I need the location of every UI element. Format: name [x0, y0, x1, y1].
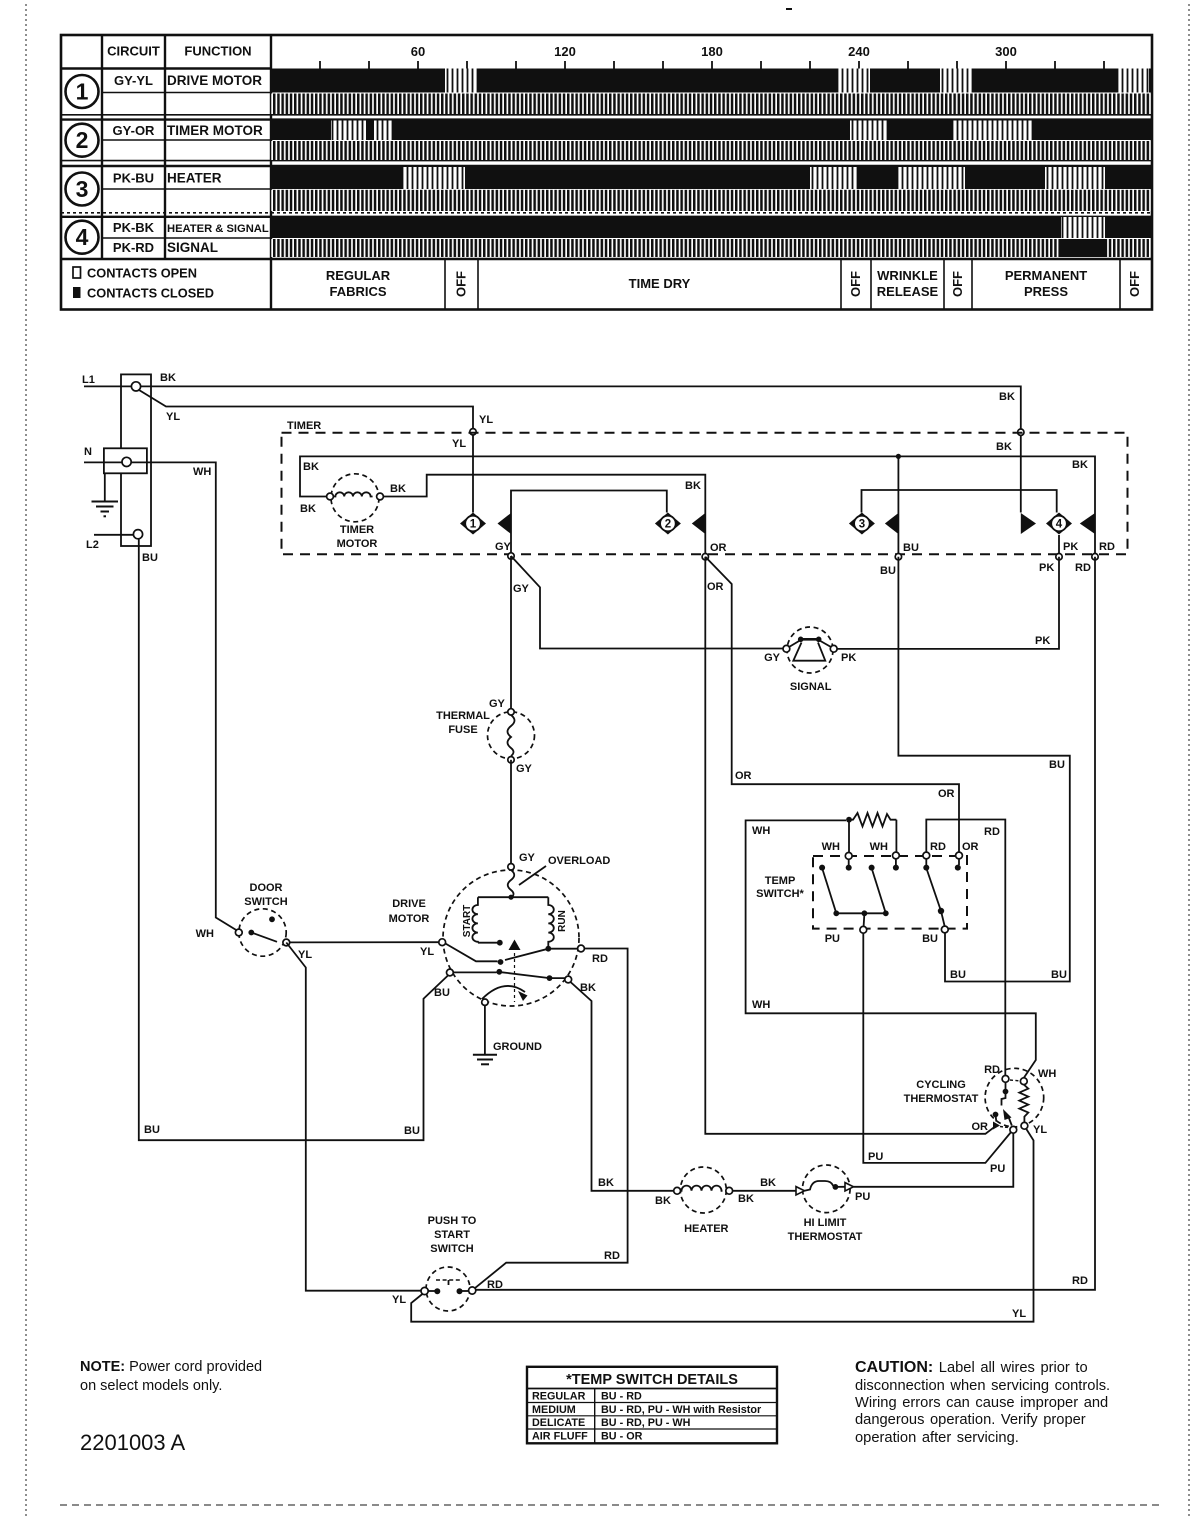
svg-text:BU: BU [1049, 759, 1065, 771]
centrifugal switch upper arm [445, 944, 578, 965]
svg-text:2: 2 [76, 127, 89, 153]
svg-text:PK-RD: PK-RD [113, 240, 154, 255]
circuit 2 stripe bar [271, 141, 1152, 160]
label BK near contact4 [1072, 459, 1088, 471]
svg-text:120: 120 [554, 44, 576, 59]
svg-text:RD: RD [487, 1279, 503, 1291]
svg-text:GY: GY [489, 698, 506, 710]
svg-text:CYCLING: CYCLING [916, 1079, 966, 1091]
label BK at contact 2 [685, 480, 701, 492]
label BK timer motor left [300, 503, 316, 515]
svg-text:FABRICS: FABRICS [329, 284, 386, 299]
label BU below [880, 565, 896, 577]
timer contact 4 [1021, 513, 1095, 535]
svg-text:FUNCTION: FUNCTION [184, 44, 251, 59]
svg-text:RD: RD [984, 1064, 1000, 1076]
label PU at temp switch [825, 933, 840, 945]
svg-text:GY-YL: GY-YL [114, 73, 153, 88]
label OR at cycling thermostat [972, 1121, 989, 1133]
wire RD motor down [472, 949, 627, 1291]
label BK timer motor right [390, 483, 406, 495]
row label TIMER MOTOR [167, 123, 263, 138]
svg-text:OR: OR [707, 581, 724, 593]
svg-text:CONTACTS CLOSED: CONTACTS CLOSED [87, 286, 214, 301]
label WH at door switch [196, 928, 214, 940]
wire BU from L2 to drive motor [139, 539, 449, 1140]
label PK at signal [841, 652, 856, 664]
chart outer frame [61, 35, 1152, 310]
terminal L1 [131, 382, 140, 391]
label GY above [495, 541, 512, 553]
label BK top right [999, 391, 1015, 403]
timer contact 2 [655, 513, 705, 535]
band label OFF 1 [454, 271, 469, 297]
label OR on diagonal [707, 581, 724, 593]
wire BK from L1 to timer contact 4 [141, 386, 1021, 512]
svg-text:WH: WH [752, 999, 770, 1011]
page border dotted left [25, 4, 27, 1516]
wire WH from N to door switch [131, 462, 237, 930]
svg-text:on select models only.: on select models only. [80, 1378, 222, 1394]
label BU lower right [1051, 969, 1067, 981]
label WH box bottom [752, 999, 770, 1011]
jumper contact 3 to contact 4 [862, 490, 1057, 513]
stray mark top center [786, 8, 792, 10]
svg-text:YL: YL [1012, 1308, 1026, 1320]
L2 lead wire [94, 534, 134, 536]
hi-limit thermostat [796, 1165, 854, 1213]
node PK [1056, 554, 1062, 560]
svg-text:PU: PU [855, 1191, 870, 1203]
circled number 4 [66, 221, 99, 254]
svg-text:BK: BK [760, 1177, 776, 1189]
label YL at door switch [298, 949, 312, 961]
label BU at motor [434, 987, 450, 999]
svg-text:2201003 A: 2201003 A [80, 1430, 186, 1455]
svg-text:GY-OR: GY-OR [113, 123, 156, 138]
label YL at push-to-start [392, 1294, 406, 1306]
chart separator lines row1/2 [61, 115, 1152, 120]
label BK below heater left [655, 1195, 671, 1207]
svg-text:BU - RD: BU - RD [601, 1391, 642, 1403]
push to start switch [421, 1267, 476, 1311]
circled number 1 [66, 75, 99, 108]
wh distribution box [746, 820, 1036, 1078]
wire YL branch down to push-to-start [286, 943, 420, 1291]
drive motor GY node [508, 864, 514, 870]
band label OFF 2 [848, 271, 863, 297]
ground symbol (mains) [92, 502, 119, 517]
svg-text:YL: YL [1033, 1124, 1047, 1136]
row label GY-OR [113, 123, 156, 138]
chart separator lines row2/3 [61, 161, 1152, 166]
svg-text:BU: BU [1051, 969, 1067, 981]
svg-text:1: 1 [76, 79, 89, 105]
svg-text:PK: PK [1035, 635, 1050, 647]
svg-text:Wiring errors can cause improp: Wiring errors can cause improper and [855, 1395, 1108, 1411]
wire RD node down to push-to-start bus [476, 557, 1095, 1290]
label RD at wh corner [984, 826, 1000, 838]
label CYCLING THERMOSTAT [904, 1079, 979, 1105]
label L1 [82, 374, 95, 386]
svg-text:3: 3 [859, 519, 865, 531]
terminal strip [121, 374, 151, 546]
N lead wire [84, 461, 122, 463]
chart header row line [61, 67, 271, 69]
circled number 2 [66, 124, 99, 157]
timer motor [327, 474, 384, 522]
svg-text:BU: BU [903, 542, 919, 554]
wire PK node to signal [837, 557, 1059, 649]
svg-text:TEMP: TEMP [765, 875, 796, 887]
svg-text:60: 60 [411, 44, 425, 59]
band label OFF 3 [950, 271, 965, 297]
label HI LIMIT THERMOSTAT [788, 1217, 863, 1243]
label PU on vertical [868, 1151, 883, 1163]
svg-text:BK: BK [1072, 459, 1088, 471]
svg-text:RELEASE: RELEASE [877, 284, 939, 299]
label RD above temp terminal [930, 841, 946, 853]
label BK bus left [303, 461, 319, 473]
svg-text:BU: BU [434, 987, 450, 999]
drive motor dashed circle [443, 870, 579, 1006]
svg-text:PK-BK: PK-BK [113, 220, 155, 235]
svg-text:BK: BK [300, 503, 316, 515]
row label GY-YL [114, 73, 153, 88]
svg-text:REGULAR: REGULAR [326, 268, 391, 283]
timer contact 3 [849, 513, 899, 535]
wire OR branch to temp switch [705, 557, 959, 852]
svg-text:BK: BK [685, 480, 701, 492]
wire GY branch to signal [511, 556, 783, 649]
label BK above heater line [598, 1177, 614, 1189]
band label PERMANENT PRESS [1005, 268, 1087, 299]
svg-text:SIGNAL: SIGNAL [167, 240, 218, 255]
jumper contact 1 to contact 2 [511, 491, 667, 554]
svg-text:CIRCUIT: CIRCUIT [107, 44, 160, 59]
bottom band dividers [445, 259, 1120, 310]
svg-text:PERMANENT: PERMANENT [1005, 268, 1087, 283]
label RD below [1075, 562, 1091, 574]
legend contacts open [73, 266, 197, 281]
chart column lines [102, 35, 271, 310]
svg-text:BU: BU [144, 1124, 160, 1136]
svg-text:RUN: RUN [557, 910, 568, 932]
svg-text:START: START [434, 1229, 470, 1241]
temp switch inner posts [819, 859, 961, 871]
label RD at cycling thermostat [984, 1064, 1000, 1076]
svg-text:WH: WH [870, 841, 888, 853]
svg-text:180: 180 [701, 44, 723, 59]
svg-text:SIGNAL: SIGNAL [790, 681, 832, 693]
band label WRINKLE RELEASE [877, 268, 939, 299]
run winding [548, 897, 568, 946]
label L2 [86, 539, 99, 551]
svg-text:GY: GY [519, 852, 536, 864]
svg-text:L2: L2 [86, 539, 99, 551]
svg-text:PRESS: PRESS [1024, 284, 1068, 299]
row label DRIVE MOTOR [167, 73, 262, 88]
svg-text:GY: GY [495, 541, 512, 553]
temp switch dashed box [813, 856, 967, 929]
page border dotted right [1188, 4, 1190, 1516]
legend contacts closed [73, 286, 214, 301]
caution text [855, 1359, 1110, 1446]
chart sub-row divider lines left columns [102, 93, 271, 239]
circuit 1 contact bar (drive motor) [271, 69, 1152, 93]
timer motor feed wire and BK bus [300, 456, 1095, 553]
centrifugal switch lower arm [453, 969, 565, 981]
svg-text:BK: BK [390, 483, 406, 495]
signal [783, 627, 837, 673]
timeline tick marks [320, 61, 1104, 69]
motor YL terminal [439, 939, 446, 946]
label BK heater right [738, 1193, 754, 1205]
svg-text:BU: BU [880, 565, 896, 577]
wire GY node to thermal fuse [510, 556, 512, 712]
svg-text:BU: BU [142, 552, 158, 564]
note text [80, 1359, 262, 1394]
svg-text:BK: BK [999, 391, 1015, 403]
svg-text:PK: PK [841, 652, 856, 664]
label YL below timer edge [452, 438, 466, 450]
svg-text:PK: PK [1063, 541, 1078, 553]
svg-text:PU: PU [825, 933, 840, 945]
ground symbol motor [473, 1055, 497, 1065]
label THERMAL FUSE [436, 710, 490, 736]
svg-text:SWITCH*: SWITCH* [756, 888, 804, 900]
svg-text:HEATER: HEATER [684, 1223, 728, 1235]
svg-text:RD: RD [1075, 562, 1091, 574]
temp switch terminals top [845, 852, 962, 859]
wire PK drop from contact 4 [1058, 535, 1060, 554]
circuit 3 stripe bar [271, 190, 1152, 211]
svg-text:THERMOSTAT: THERMOSTAT [904, 1093, 979, 1105]
svg-text:BU - OR: BU - OR [601, 1430, 643, 1442]
svg-text:DRIVE: DRIVE [392, 898, 426, 910]
chart bottom band frame [61, 258, 1152, 260]
svg-text:OR: OR [962, 841, 979, 853]
label BK at motor [580, 982, 596, 994]
svg-text:AIR FLUFF: AIR FLUFF [532, 1430, 588, 1442]
svg-text:BU - RD, PU - WH: BU - RD, PU - WH [601, 1417, 691, 1429]
row label PK-BU [113, 171, 154, 186]
circuit 4 contact bar (heater and signal) [271, 217, 1152, 238]
svg-text:PK: PK [1039, 562, 1054, 574]
motor BU terminal [447, 969, 454, 976]
svg-text:3: 3 [76, 176, 89, 202]
label PUSH TO START SWITCH [428, 1215, 477, 1255]
label PK above [1063, 541, 1078, 553]
svg-text:OR: OR [735, 770, 752, 782]
svg-text:OR: OR [972, 1121, 989, 1133]
temp switch arm 1 [822, 868, 836, 913]
svg-text:BK: BK [303, 461, 319, 473]
label YL upper [166, 411, 180, 423]
label GY above fuse [489, 698, 506, 710]
circuit 4 signal stripe bar [271, 239, 1149, 257]
wire timer motor to contact 2 [383, 475, 705, 554]
wire YL cycling thermostat down to bottom bus [411, 1129, 1033, 1322]
svg-text:GROUND: GROUND [493, 1041, 542, 1053]
node BU [895, 554, 901, 560]
wire heater to hi-limit [733, 1190, 796, 1192]
row label HEATER [167, 171, 222, 186]
svg-text:PU: PU [990, 1163, 1005, 1175]
svg-text:WH: WH [1038, 1068, 1056, 1080]
label PU on diagonal [990, 1163, 1005, 1175]
label BU at temp switch [922, 933, 938, 945]
motor BK terminal [565, 976, 572, 983]
svg-text:WH: WH [822, 841, 840, 853]
start winding bottom lead [478, 940, 503, 946]
svg-text:RD: RD [1099, 541, 1115, 553]
svg-text:OVERLOAD: OVERLOAD [548, 855, 610, 867]
label BU left bottom [144, 1124, 160, 1136]
wire GY fuse to drive motor [510, 760, 512, 867]
row label PK-BK [113, 220, 155, 235]
svg-text:MOTOR: MOTOR [389, 913, 430, 925]
part number 2201003 A [80, 1430, 186, 1455]
svg-text:BK: BK [598, 1177, 614, 1189]
label RD at motor [592, 953, 608, 965]
svg-text:OFF: OFF [848, 271, 863, 297]
label RD above [1099, 541, 1115, 553]
label PU at hi-limit [855, 1191, 870, 1203]
temp switch PU terminal [860, 926, 867, 933]
svg-text:2: 2 [665, 519, 671, 531]
svg-text:TIMER MOTOR: TIMER MOTOR [167, 123, 263, 138]
label BU right bottom [404, 1125, 420, 1137]
svg-text:SWITCH: SWITCH [244, 896, 287, 908]
page border dashed bottom [60, 1504, 1160, 1506]
svg-text:300: 300 [995, 44, 1017, 59]
label DOOR SWITCH [244, 882, 287, 908]
label WH box top [752, 825, 770, 837]
label WH resistor left [822, 841, 840, 853]
svg-text:CAUTION: Label all wires prio: CAUTION: Label all wires prior to [855, 1359, 1088, 1376]
label WH at cycling thermostat [1038, 1068, 1056, 1080]
start winding [462, 897, 478, 943]
temp switch details table [527, 1367, 777, 1444]
label YL at motor [420, 946, 434, 958]
L1 lead wire [84, 385, 132, 387]
label BU at L2 [142, 552, 158, 564]
svg-text:THERMAL: THERMAL [436, 710, 490, 722]
svg-text:*TEMP SWITCH DETAILS: *TEMP SWITCH DETAILS [566, 1372, 738, 1388]
svg-text:NOTE: Power cord provided: NOTE: Power cord provided [80, 1359, 262, 1375]
svg-text:BU: BU [950, 969, 966, 981]
svg-text:WH: WH [196, 928, 214, 940]
chart separator lines row3/4 [61, 213, 1152, 217]
label BK top left [160, 372, 176, 384]
label BU lower left [950, 969, 966, 981]
ground wire from motor [484, 1005, 486, 1054]
svg-text:N: N [84, 446, 92, 458]
svg-text:OFF: OFF [454, 271, 469, 297]
svg-text:GY: GY [764, 652, 781, 664]
svg-text:FUSE: FUSE [448, 724, 477, 736]
label RD at switch [487, 1279, 503, 1291]
svg-text:RD: RD [930, 841, 946, 853]
wire YL from L1 to timer contact 1 [139, 390, 473, 513]
svg-text:HEATER: HEATER [167, 171, 222, 186]
svg-text:MOTOR: MOTOR [337, 538, 378, 550]
label TEMP SWITCH [756, 875, 804, 900]
row label HEATER & SIGNAL [167, 223, 269, 235]
svg-text:TIME DRY: TIME DRY [629, 276, 691, 291]
circuit 2 contact bar (timer motor) [271, 121, 1152, 141]
temp switch resistor [846, 813, 896, 853]
label RD bottom right [1072, 1275, 1088, 1287]
svg-text:YL: YL [452, 438, 466, 450]
node BK on timer box [1018, 429, 1024, 435]
label GY on branch [513, 583, 530, 595]
svg-text:BU: BU [404, 1125, 420, 1137]
svg-text:PK-BU: PK-BU [113, 171, 154, 186]
label WH near N [193, 466, 211, 478]
band label REGULAR FABRICS [326, 268, 391, 299]
svg-text:HI LIMIT: HI LIMIT [804, 1217, 847, 1229]
junction dot BK bus contact3 feed [896, 454, 901, 459]
svg-text:HEATER & SIGNAL: HEATER & SIGNAL [167, 223, 269, 235]
label GROUND [493, 1041, 542, 1053]
svg-text:TIMER: TIMER [340, 524, 374, 536]
svg-text:REGULAR: REGULAR [532, 1391, 586, 1403]
svg-text:TIMER: TIMER [287, 420, 321, 432]
svg-text:BU: BU [922, 933, 938, 945]
label DRIVE MOTOR [389, 898, 430, 925]
temp switch arm 3 [926, 868, 944, 926]
header text FUNCTION [184, 44, 251, 59]
svg-text:DELICATE: DELICATE [532, 1417, 585, 1429]
wire YL door switch to motor [290, 941, 439, 943]
svg-text:CONTACTS OPEN: CONTACTS OPEN [87, 266, 197, 281]
label OR above temp switch [938, 788, 955, 800]
temp switch arm 2 [872, 868, 886, 913]
wire OR node down to cycling thermostat [705, 557, 994, 1134]
node RD [1092, 554, 1098, 560]
wire RD temp switch to cycling thermostat [926, 820, 1005, 1076]
wire PU temp switch to hi-limit junction [863, 933, 1011, 1163]
svg-text:4: 4 [76, 224, 89, 250]
label GY at motor [519, 852, 536, 864]
motor RD terminal [578, 945, 585, 952]
node OR [702, 554, 708, 560]
svg-text:BK: BK [160, 372, 176, 384]
label OVERLOAD with leader [519, 855, 610, 885]
wire BU node to temp switch [898, 557, 1069, 982]
svg-text:PUSH TO: PUSH TO [428, 1215, 477, 1227]
label RD at corner [604, 1250, 620, 1262]
svg-text:BK: BK [655, 1195, 671, 1207]
label BK below node [996, 441, 1012, 453]
svg-text:RD: RD [1072, 1275, 1088, 1287]
wire hi-limit to cycling thermostat PU [854, 1133, 1014, 1187]
label YL at timer entry [479, 414, 493, 426]
svg-text:BK: BK [738, 1193, 754, 1205]
label SIGNAL [790, 681, 832, 693]
door switch [235, 909, 289, 956]
svg-text:operation after servicing.: operation after servicing. [855, 1430, 1019, 1446]
svg-text:START: START [462, 905, 473, 938]
svg-text:disconnection when servicing c: disconnection when servicing controls. [855, 1378, 1110, 1394]
label GY at signal [764, 652, 781, 664]
header text CIRCUIT [107, 44, 160, 59]
svg-text:YL: YL [479, 414, 493, 426]
label BU above [903, 542, 919, 554]
N terminal box [104, 448, 147, 473]
